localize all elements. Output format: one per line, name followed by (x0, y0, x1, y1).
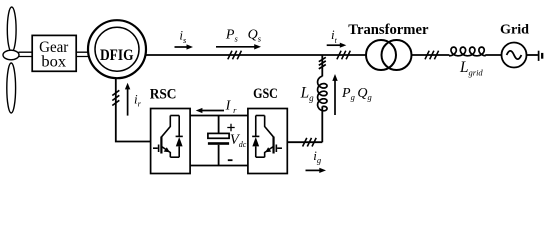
capacitor lead bottom (218, 145, 220, 166)
three-phase hatch after transformer (425, 51, 439, 60)
transformer secondary circle (382, 40, 412, 70)
label minus (228, 159, 233, 161)
shaft gearbox to DFIG (76, 52, 89, 56)
DFIG inner circle (95, 27, 139, 71)
GSC box (248, 109, 287, 174)
RSC box (151, 109, 191, 174)
svg-text:Ir: Ir (225, 98, 237, 115)
svg-text:Ps: Ps (225, 27, 239, 43)
grid AC source circle (502, 43, 527, 68)
svg-text:Lg: Lg (300, 84, 315, 102)
arrow i_t (327, 43, 347, 48)
bus bar 1 (538, 51, 540, 61)
arrow i_g (306, 168, 327, 173)
hatch on rotor wire (112, 90, 119, 105)
three-phase hatch before transformer (337, 51, 350, 60)
riser wire to junction (321, 55, 323, 142)
three-phase hatch on stator rail (228, 51, 242, 60)
arrow i_s (175, 44, 194, 49)
svg-text:ir: ir (134, 92, 142, 109)
GSC IGBT diode (252, 116, 259, 158)
inductor L_grid coil (449, 47, 486, 56)
DC link bottom rail (190, 165, 248, 167)
arrow P_s Q_s (216, 44, 261, 49)
capacitor C top plate (208, 133, 229, 138)
arrow I_r (196, 108, 224, 113)
svg-text:ig: ig (313, 148, 321, 165)
RSC IGBT transistor (153, 116, 170, 158)
svg-text:Qs: Qs (248, 27, 262, 43)
svg-text:box: box (41, 53, 66, 70)
arrow i_r (125, 83, 130, 116)
GSC cell top connector (256, 115, 265, 117)
svg-text:Lgrid: Lgrid (459, 59, 483, 78)
wire GSC output (287, 141, 322, 143)
inductor L_g coil (318, 76, 327, 111)
svg-text:it: it (331, 27, 338, 45)
arrow P_g Q_g (332, 74, 337, 115)
grid AC source sine wave (507, 51, 522, 59)
svg-text:is: is (179, 27, 187, 45)
wire transformer to L_grid (412, 54, 450, 56)
wind turbine blade top (7, 7, 16, 52)
hatch on riser (319, 57, 326, 69)
svg-text:Pg: Pg (341, 86, 355, 102)
DC link top rail (190, 115, 248, 117)
svg-text:Grid: Grid (500, 22, 529, 37)
svg-text:Qg: Qg (357, 86, 371, 102)
wind turbine hub (3, 50, 19, 60)
wind turbine blade bottom (7, 63, 16, 113)
svg-text:GSC: GSC (253, 86, 278, 102)
capacitor C bottom plate (208, 142, 229, 145)
svg-text:Vdc: Vdc (230, 132, 247, 149)
bus bar 2 (541, 53, 543, 59)
GSC cell bottom connector (256, 156, 265, 158)
RSC cell bottom connector (170, 156, 179, 158)
wire stator rail to transformer (145, 54, 367, 56)
rotor wire DFIG to RSC (116, 78, 151, 142)
svg-text:RSC: RSC (150, 86, 177, 102)
hatch on GSC output (303, 138, 317, 147)
shaft turbine to gearbox (19, 52, 33, 56)
gearbox box (32, 35, 76, 71)
wire L_grid to grid source (485, 54, 501, 56)
svg-text:Transformer: Transformer (348, 22, 429, 38)
transformer primary circle (366, 40, 396, 70)
RSC cell top connector (170, 115, 179, 117)
wire grid source to bus (527, 54, 538, 56)
DFIG outer circle (88, 20, 146, 78)
svg-text:DFIG: DFIG (100, 47, 134, 64)
capacitor lead top (218, 116, 220, 134)
GSC IGBT transistor (265, 116, 282, 158)
RSC IGBT diode D (176, 116, 183, 158)
label plus (227, 124, 234, 131)
